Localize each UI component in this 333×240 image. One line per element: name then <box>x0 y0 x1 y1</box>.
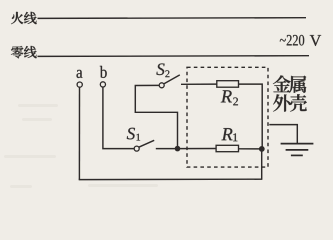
wire: terminal b down to S1 <box>103 87 134 149</box>
wire: S2 branch (node A up, step left, up to S2) <box>135 85 177 148</box>
metal case enclosure (dashed box) <box>187 67 268 167</box>
wire: bottom rail up to node B <box>261 149 263 180</box>
wire: S1 to node A <box>156 148 178 150</box>
ground <box>281 144 314 156</box>
wire: terminal a down to bottom rail <box>78 87 80 179</box>
label 金属外壳 (metal case) <box>273 75 307 111</box>
net label 零线 (neutral wire) <box>11 46 37 58</box>
wire: R2 to node B vertical <box>239 84 263 149</box>
terminal a <box>77 70 83 87</box>
terminal b <box>100 66 107 87</box>
wire: node A to R1 <box>178 148 217 150</box>
wire: live line (火线) <box>38 17 307 20</box>
wire: bottom rail <box>79 178 262 180</box>
wire: R1 to node B <box>239 148 262 150</box>
resistor R1 <box>216 128 238 152</box>
wire: S2 contact to R2 <box>181 83 217 85</box>
switch S1 <box>127 128 154 151</box>
wire: case to ground <box>269 125 297 144</box>
resistor R2 <box>217 81 239 106</box>
node B (junction R1/R2/bottom rail) <box>259 146 265 152</box>
wire: neutral line (零线) <box>38 55 310 58</box>
switch S2 <box>156 63 179 87</box>
source label ~220 V <box>280 35 321 46</box>
net label 火线 (live wire) <box>11 12 37 24</box>
node A (junction where S2 branch joins) <box>175 146 181 152</box>
